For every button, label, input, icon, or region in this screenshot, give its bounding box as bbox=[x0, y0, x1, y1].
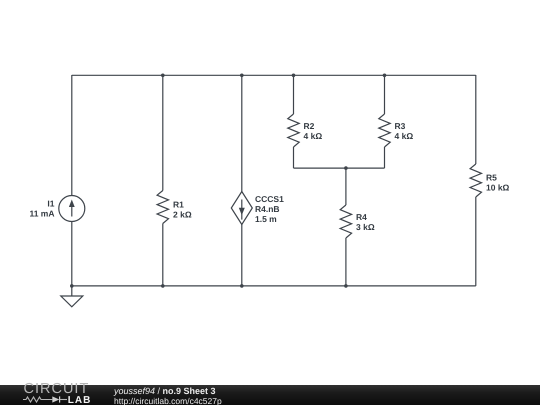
resistor R2 bbox=[288, 114, 299, 147]
node bottom CCCS1 junction bbox=[240, 284, 244, 288]
node bottom ground junction bbox=[70, 284, 74, 288]
footer bar bbox=[0, 385, 540, 405]
current source I1 bbox=[59, 196, 85, 222]
wire R2 top bbox=[293, 75, 295, 114]
svg-text:4 kΩ: 4 kΩ bbox=[395, 131, 414, 141]
svg-text:4 kΩ: 4 kΩ bbox=[304, 131, 323, 141]
resistor R4 bbox=[340, 205, 351, 238]
svg-text:R5: R5 bbox=[486, 173, 497, 183]
svg-text:CCCS1: CCCS1 bbox=[255, 194, 284, 204]
wire CCCS1 top bbox=[241, 75, 243, 192]
wire R3 top bbox=[384, 75, 386, 114]
footer url bbox=[114, 397, 222, 405]
svg-text:R4: R4 bbox=[356, 212, 367, 222]
footer sheet title bbox=[114, 387, 216, 396]
node top R3 junction bbox=[383, 74, 387, 78]
svg-text:1.5 m: 1.5 m bbox=[255, 214, 277, 224]
node top R2 junction bbox=[292, 74, 296, 78]
wire I1 bottom bbox=[71, 222, 73, 286]
CircuitLab logo resistor-diode glyph bbox=[22, 395, 72, 405]
CircuitLab logo LAB bbox=[68, 395, 92, 405]
wire R2 bottom bbox=[293, 147, 295, 168]
svg-text:I1: I1 bbox=[47, 199, 54, 209]
resistor R3 bbox=[379, 114, 390, 147]
wire ground stem bbox=[71, 286, 73, 296]
wire R1 top bbox=[162, 75, 164, 191]
node bottom R1 junction bbox=[161, 284, 165, 288]
node top R1 junction bbox=[161, 74, 165, 78]
wire bottom bus bbox=[72, 285, 476, 287]
wire CCCS1 bottom bbox=[241, 225, 243, 286]
ground bbox=[61, 296, 83, 307]
node middle R4 junction bbox=[344, 166, 348, 170]
wire middle bus R2R3 to R4 bbox=[294, 167, 385, 169]
resistor R5 bbox=[470, 164, 481, 197]
svg-text:R2: R2 bbox=[304, 121, 315, 131]
svg-text:2 kΩ: 2 kΩ bbox=[173, 209, 192, 219]
wire R3 bottom bbox=[384, 147, 386, 168]
svg-text:3 kΩ: 3 kΩ bbox=[356, 222, 375, 232]
svg-text:R3: R3 bbox=[395, 121, 406, 131]
resistor R1 bbox=[157, 191, 168, 224]
svg-text:R4.nB: R4.nB bbox=[255, 204, 280, 214]
node bottom R4 junction bbox=[344, 284, 348, 288]
wire R4 bottom bbox=[345, 238, 347, 286]
dependent source CCCS1 bbox=[231, 192, 252, 225]
wire right branch upper bbox=[475, 75, 477, 164]
CircuitLab logo text bbox=[24, 382, 90, 397]
wire R4 top bbox=[345, 168, 347, 205]
svg-text:11 mA: 11 mA bbox=[29, 209, 54, 219]
wire top bus bbox=[72, 74, 476, 76]
svg-text:R1: R1 bbox=[173, 199, 184, 209]
wire right branch lower bbox=[475, 197, 477, 286]
node top CCCS1 junction bbox=[240, 74, 244, 78]
wire R1 bottom bbox=[162, 224, 164, 286]
wire I1 top bbox=[71, 75, 73, 196]
svg-text:10 kΩ: 10 kΩ bbox=[486, 183, 510, 193]
